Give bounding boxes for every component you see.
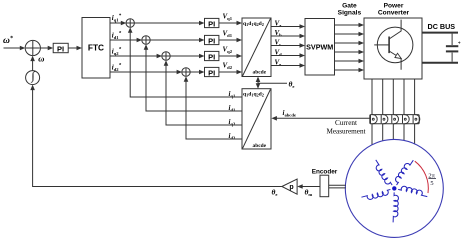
wire gate signal 5: [335, 59, 365, 64]
motor stator circle: [345, 139, 443, 237]
wire DC bus positive rail: [422, 32, 458, 34]
Gate Signals label: [338, 3, 362, 17]
transformation block T1 dq to abcde: [242, 18, 271, 77]
encoder block: [320, 175, 329, 197]
svg-text:Measurement: Measurement: [326, 128, 365, 136]
FTC block: [82, 18, 110, 79]
wire V_d to SVPWM: [271, 53, 305, 58]
svg-text:ω: ω: [38, 54, 44, 64]
wire FTC out 1 to S1: [110, 21, 126, 26]
PI speed controller block: [53, 43, 68, 53]
wire theta_e feedback to integrator: [30, 85, 282, 187]
wire S0 to speed PI: [40, 46, 53, 51]
svg-text:abcde: abcde: [253, 70, 267, 76]
motor winding phase 4 (268 deg): [393, 192, 399, 222]
svg-text:Encoder: Encoder: [312, 169, 338, 176]
capacitor C DC link: [446, 34, 461, 62]
Power Converter block: [364, 18, 422, 79]
svg-text:PI: PI: [208, 52, 215, 61]
node 2pi/5 label: [428, 172, 436, 187]
svg-text:Converter: Converter: [378, 10, 410, 17]
summing junction S1: [126, 19, 134, 27]
svg-text:abcde: abcde: [253, 143, 267, 149]
wire gate signal 1: [335, 23, 365, 28]
summing junction S4: [182, 68, 190, 76]
wire S2 to PI2: [150, 38, 204, 43]
wire PI2 to dq-abcde block: [219, 38, 242, 43]
wire FTC out 3 to S3: [110, 54, 162, 59]
PI current controller 4: [205, 67, 219, 77]
motor star point dot: [392, 186, 396, 190]
wire phase c: [392, 79, 394, 139]
wire phase a: [371, 79, 373, 145]
wire PI1 to dq-abcde block: [219, 21, 242, 26]
svg-text:FTC: FTC: [88, 43, 104, 53]
wire PI to FTC: [68, 46, 82, 51]
svg-text:5: 5: [430, 180, 433, 187]
wire V_b to SVPWM: [271, 34, 305, 39]
summing junction S0 (speed error): [25, 40, 40, 55]
wire i_d1 feedback to S2: [144, 44, 242, 111]
transformation block T2 abcde to dq: [242, 89, 271, 149]
svg-text:DC BUS: DC BUS: [428, 22, 456, 31]
wire i_q1 feedback to S1: [128, 27, 242, 97]
transistor symbol inside converter: [374, 20, 413, 70]
svg-text:Current: Current: [335, 119, 357, 127]
wire S1 to PI1: [134, 21, 204, 26]
wire FTC out 4 to S4: [110, 70, 182, 75]
motor winding phase 5 (346 deg): [398, 185, 428, 197]
Power Converter label: [378, 3, 410, 17]
motor winding phase 2 (123 deg): [372, 160, 392, 188]
motor winding phase 3 (195 deg): [361, 189, 391, 201]
wire V_e to SVPWM: [271, 63, 305, 68]
wire PI4 to dq-abcde block: [219, 70, 242, 75]
svg-text:Gate: Gate: [342, 3, 357, 10]
SVPWM block: [305, 19, 335, 76]
wire integrator to S0: [30, 56, 35, 71]
svg-text:PI: PI: [57, 44, 64, 53]
wire phase d: [403, 79, 405, 140]
svg-text:q1d1q2d2: q1d1q2d2: [243, 92, 264, 98]
current sensors on phases: [370, 115, 420, 124]
wire theta_m encoder to gain p: [297, 184, 320, 189]
summing junction S3: [162, 52, 170, 60]
wire phase b: [382, 79, 384, 141]
wire S3 to PI3: [170, 54, 204, 59]
wire V_c to SVPWM: [271, 43, 305, 48]
svg-text:SVPWM: SVPWM: [306, 42, 333, 51]
gain block p (pole pairs): [282, 179, 297, 194]
wire FTC out 2 to S2: [110, 38, 142, 43]
wire gate signal 4: [335, 50, 365, 55]
wire phase e: [414, 79, 416, 144]
Current Measurement label: [326, 119, 365, 136]
svg-text:PI: PI: [208, 36, 215, 45]
wire PI3 to dq-abcde block: [219, 54, 242, 59]
summing junction S2: [142, 36, 150, 44]
wire S4 to PI4: [190, 70, 204, 75]
integrator circle: [26, 71, 40, 85]
PI current controller 3: [205, 51, 219, 61]
svg-text:PI: PI: [208, 68, 215, 77]
wire DC bus negative rail: [422, 62, 458, 64]
svg-text:Power: Power: [384, 3, 404, 10]
wire V_a to SVPWM: [271, 24, 305, 29]
svg-text:PI: PI: [208, 19, 215, 28]
motor winding phase 1 (56 deg): [393, 158, 414, 185]
wire i_abcde from sensors to T2: [271, 116, 369, 121]
PI current controller 1: [205, 18, 219, 28]
shaft double line encoder to motor: [329, 185, 346, 188]
svg-text:Signals: Signals: [338, 10, 362, 17]
svg-text:p: p: [289, 184, 293, 191]
svg-text:q1d1q2d2: q1d1q2d2: [243, 21, 264, 27]
phase angle arc 2pi/5: [415, 161, 429, 193]
wire i_q2 feedback to S3: [164, 60, 242, 125]
wire gate signal 3: [335, 41, 365, 46]
wire gate signal 2: [335, 32, 365, 37]
wire theta_e into T1 and T2: [256, 77, 287, 89]
svg-text:+: +: [458, 41, 461, 47]
PI current controller 2: [205, 35, 219, 45]
wire speed reference input: [4, 46, 26, 51]
wire i_d2 feedback to S4: [184, 76, 242, 139]
wire gate signal 6: [335, 68, 365, 73]
